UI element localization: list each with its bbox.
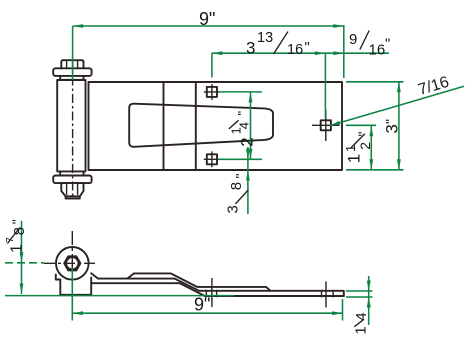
svg-text:16: 16 bbox=[287, 42, 303, 58]
barrel (pivot tube) bbox=[57, 80, 85, 171]
dim 3 13/16: text bbox=[246, 30, 310, 58]
dim 2 1/4: rotated text bbox=[228, 111, 256, 147]
dim 2 1/4: extension line bottom hole bbox=[219, 158, 263, 160]
hex bolt head (top view) bbox=[61, 60, 83, 68]
top neck (barrel end) bbox=[60, 76, 83, 80]
dim 9 inch top: extension line left bbox=[72, 26, 74, 80]
dim 1 1/2: dimension line bbox=[370, 126, 372, 170]
hex nut (side view) bbox=[64, 256, 80, 270]
knuckle base body bbox=[56, 275, 91, 295]
dim 1 7/8: rotated text bbox=[5, 219, 28, 253]
svg-text:": " bbox=[385, 36, 390, 53]
base bottom extension (green) bbox=[5, 295, 234, 297]
svg-text:9": 9" bbox=[194, 295, 210, 315]
square hole bottom (carriage bolt) bbox=[204, 151, 220, 167]
dim 1/4: extension lines bbox=[346, 290, 373, 292]
square hole top (carriage bolt) bbox=[204, 84, 220, 100]
knuckle circle bbox=[56, 247, 89, 280]
rib line (side view) bbox=[128, 273, 271, 290]
strap bottom edge (side view) bbox=[91, 283, 344, 296]
svg-text:2: 2 bbox=[357, 142, 373, 150]
plate bend line 2 bbox=[195, 82, 197, 170]
dim 9/16: dimension line + tail bbox=[325, 52, 389, 54]
dim 3/8: dimension line bbox=[247, 147, 249, 214]
svg-text:3: 3 bbox=[246, 39, 255, 58]
svg-text:": " bbox=[383, 119, 399, 124]
svg-text:": " bbox=[355, 132, 371, 137]
svg-text:": " bbox=[233, 174, 249, 179]
dim 1 7/8: dimension line bbox=[21, 221, 23, 294]
svg-text:": " bbox=[235, 111, 250, 116]
plate bend line 1 bbox=[163, 82, 165, 170]
dim 3 13/16: dimension line bbox=[212, 52, 326, 54]
leader 7/16 bbox=[330, 86, 465, 126]
plate outline bbox=[89, 82, 343, 170]
embossed rib (tapered, rounded) bbox=[129, 104, 273, 147]
knuckle centerline vertical bbox=[71, 231, 73, 288]
dim 2 1/4: dimension line (split for text) bbox=[250, 92, 252, 159]
svg-text:9: 9 bbox=[349, 31, 357, 48]
svg-text:1: 1 bbox=[9, 244, 26, 253]
hole centerline left (side view) bbox=[211, 278, 213, 307]
strap top edge with rib (side view) bbox=[91, 273, 344, 296]
svg-text:9": 9" bbox=[199, 9, 215, 29]
hex nut (bottom) bbox=[61, 183, 83, 198]
bolt circle (side view) bbox=[66, 257, 78, 269]
dim 3 13/16: extension line right (right hole center) bbox=[324, 53, 326, 118]
svg-text:13: 13 bbox=[257, 30, 273, 46]
dim 9 inch top: dimension line bbox=[73, 25, 344, 27]
dim 1/4: dimension line bbox=[368, 276, 370, 325]
bolt tip bbox=[66, 196, 80, 198]
dim 2 1/4: extension line top hole bbox=[219, 91, 263, 93]
dim 9 inch top: extension line right bbox=[343, 25, 345, 78]
dim 9/16: text bbox=[349, 31, 390, 59]
dim 9 bottom: extension right bbox=[342, 299, 344, 321]
bottom neck (barrel end) bbox=[60, 171, 83, 175]
dim 3/8: rotated text bbox=[225, 174, 249, 214]
square hole right bbox=[312, 110, 340, 142]
dim 3 inch: dimension line bbox=[398, 82, 400, 170]
svg-text:2: 2 bbox=[238, 137, 257, 146]
svg-text:16: 16 bbox=[369, 42, 386, 59]
svg-text:4: 4 bbox=[353, 312, 370, 320]
svg-text:8: 8 bbox=[228, 182, 245, 190]
dim 1 1/2: rotated text bbox=[343, 132, 373, 164]
svg-text:": " bbox=[305, 40, 310, 56]
center extension (green dashed) left bbox=[5, 262, 44, 264]
svg-text:4: 4 bbox=[237, 122, 252, 129]
knuckle centerline horizontal (dash-dot) bbox=[44, 262, 98, 264]
dim 1 1/2: extension line (hole center to right) bbox=[346, 124, 376, 126]
hole centerline right (side view) bbox=[325, 282, 327, 308]
svg-text:3: 3 bbox=[383, 124, 402, 133]
svg-text:1: 1 bbox=[343, 145, 358, 152]
hole edge ticks right (side view) bbox=[321, 290, 323, 298]
bolt centerline (dash-dot) bbox=[72, 59, 74, 199]
dim 3 inch: rotated text bbox=[383, 119, 402, 134]
hole edge ticks left (side view) bbox=[205, 290, 207, 298]
top washer bbox=[53, 68, 91, 76]
dim 3 inch: extension line top (plate corner) bbox=[346, 81, 404, 83]
svg-text:1: 1 bbox=[353, 326, 370, 334]
dim 9 bottom: dimension line bbox=[72, 312, 342, 314]
dim 3 inch: extension line bottom (plate corner) bbox=[346, 169, 404, 171]
dim 3 13/16: extension line left (hole center) bbox=[211, 53, 213, 77]
svg-text:8: 8 bbox=[11, 227, 28, 235]
bottom washer bbox=[53, 176, 91, 184]
svg-text:1: 1 bbox=[345, 154, 364, 163]
dim 1/4: rotated text bbox=[353, 312, 371, 334]
svg-text:3: 3 bbox=[225, 205, 242, 213]
dim 9 bottom: extension left bbox=[71, 268, 73, 321]
svg-text:": " bbox=[9, 219, 25, 224]
